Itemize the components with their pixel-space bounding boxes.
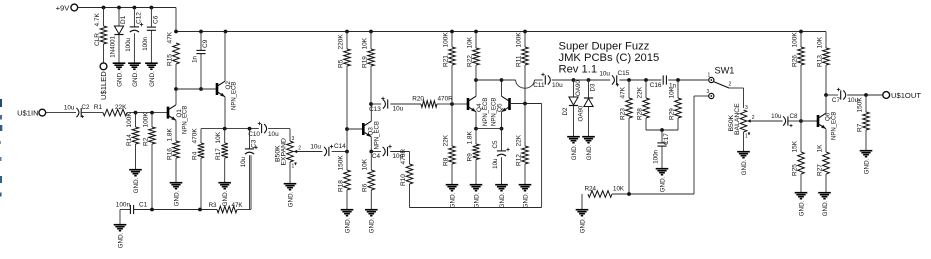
svg-text:NPN_ECB: NPN_ECB bbox=[832, 112, 838, 140]
svg-text:R21: R21 bbox=[442, 55, 449, 67]
svg-text:47K: 47K bbox=[232, 202, 244, 209]
svg-text:C16: C16 bbox=[650, 82, 662, 89]
svg-text:22K: 22K bbox=[115, 104, 127, 111]
svg-text:Q3: Q3 bbox=[368, 127, 375, 136]
svg-text:1: 1 bbox=[745, 134, 748, 140]
svg-text:GND.: GND. bbox=[344, 217, 351, 233]
svg-text:R15: R15 bbox=[166, 54, 173, 66]
svg-text:Q4: Q4 bbox=[476, 103, 483, 112]
svg-text:C3: C3 bbox=[251, 139, 258, 148]
svg-text:470K: 470K bbox=[191, 128, 198, 144]
svg-text:C15: C15 bbox=[618, 70, 630, 77]
svg-text:R14: R14 bbox=[126, 134, 133, 146]
svg-text:R3: R3 bbox=[209, 202, 217, 209]
svg-text:GND.: GND. bbox=[579, 217, 586, 233]
svg-text:GND.: GND. bbox=[369, 217, 376, 233]
svg-text:100n: 100n bbox=[142, 36, 149, 50]
svg-text:GND.: GND. bbox=[571, 144, 578, 160]
svg-text:NPN_ECB: NPN_ECB bbox=[375, 121, 381, 149]
svg-text:R9: R9 bbox=[466, 153, 473, 162]
svg-text:150K: 150K bbox=[337, 155, 344, 171]
svg-text:U$1OUT: U$1OUT bbox=[891, 91, 921, 100]
svg-text:3: 3 bbox=[745, 105, 748, 111]
svg-text:R12: R12 bbox=[515, 154, 522, 166]
svg-text:150K: 150K bbox=[856, 97, 863, 113]
svg-text:3: 3 bbox=[292, 136, 295, 142]
svg-text:100u: 100u bbox=[125, 37, 132, 51]
svg-text:R25: R25 bbox=[791, 164, 798, 176]
svg-text:GND.: GND. bbox=[741, 159, 748, 175]
svg-text:220K: 220K bbox=[337, 34, 344, 50]
svg-text:C17: C17 bbox=[663, 133, 670, 145]
svg-text:10K: 10K bbox=[215, 131, 222, 143]
svg-text:C13: C13 bbox=[369, 106, 381, 113]
svg-text:JMK PCBs (C) 2015: JMK PCBs (C) 2015 bbox=[559, 52, 660, 64]
svg-text:R22: R22 bbox=[466, 55, 473, 67]
svg-text:R17: R17 bbox=[215, 148, 222, 160]
svg-text:R20: R20 bbox=[412, 96, 424, 103]
svg-text:D3: D3 bbox=[590, 83, 597, 91]
svg-text:10u: 10u bbox=[771, 113, 782, 120]
svg-text:BALANCE: BALANCE bbox=[734, 103, 741, 135]
svg-text:R28: R28 bbox=[636, 108, 643, 120]
svg-text:R27: R27 bbox=[816, 164, 823, 176]
svg-text:C1: C1 bbox=[139, 202, 148, 209]
svg-text:EXPAND: EXPAND bbox=[281, 138, 288, 166]
svg-text:R18: R18 bbox=[337, 180, 344, 192]
svg-text:R1: R1 bbox=[94, 104, 103, 111]
svg-text:GND.: GND. bbox=[116, 71, 123, 87]
svg-text:C8: C8 bbox=[790, 113, 798, 120]
svg-text:1N4001: 1N4001 bbox=[109, 35, 116, 57]
svg-text:470R: 470R bbox=[400, 149, 407, 165]
svg-text:GND.: GND. bbox=[287, 191, 294, 207]
svg-text:SW1: SW1 bbox=[715, 66, 735, 76]
svg-text:100K: 100K bbox=[791, 32, 798, 48]
svg-text:R4: R4 bbox=[191, 151, 198, 160]
svg-text:NPN_ECB: NPN_ECB bbox=[183, 106, 189, 134]
svg-text:CLR: CLR bbox=[94, 33, 101, 46]
svg-text:R6: R6 bbox=[362, 183, 369, 192]
svg-text:GND.: GND. bbox=[499, 192, 506, 208]
svg-text:4.7K: 4.7K bbox=[94, 12, 101, 26]
svg-text:R24: R24 bbox=[585, 186, 597, 193]
svg-text:R26: R26 bbox=[791, 55, 798, 67]
svg-text:10u: 10u bbox=[552, 82, 563, 89]
svg-text:GND.: GND. bbox=[149, 71, 156, 87]
svg-text:100K: 100K bbox=[142, 112, 149, 128]
svg-text:GND.: GND. bbox=[659, 176, 666, 192]
svg-text:1n: 1n bbox=[191, 55, 198, 62]
svg-text:10u: 10u bbox=[492, 158, 499, 169]
svg-text:D1: D1 bbox=[120, 15, 127, 24]
svg-text:2: 2 bbox=[298, 146, 301, 152]
svg-text:OA90: OA90 bbox=[575, 80, 582, 96]
svg-text:C2: C2 bbox=[82, 104, 90, 111]
svg-text:C6: C6 bbox=[153, 15, 160, 24]
svg-text:GND.: GND. bbox=[449, 192, 456, 208]
svg-text:100K: 100K bbox=[515, 32, 522, 48]
svg-text:R5: R5 bbox=[337, 59, 344, 68]
svg-text:GND.: GND. bbox=[473, 192, 480, 208]
svg-text:22K: 22K bbox=[442, 134, 449, 146]
svg-text:1: 1 bbox=[708, 73, 711, 79]
svg-text:GND.: GND. bbox=[863, 158, 870, 174]
svg-text:10K: 10K bbox=[361, 37, 368, 49]
svg-text:R2: R2 bbox=[142, 137, 149, 146]
svg-text:GND.: GND. bbox=[133, 177, 140, 193]
svg-text:GND.: GND. bbox=[117, 232, 124, 248]
svg-text:R29: R29 bbox=[668, 108, 675, 120]
svg-text:R11: R11 bbox=[515, 55, 522, 67]
svg-text:15K: 15K bbox=[791, 140, 798, 152]
svg-text:1: 1 bbox=[292, 164, 295, 170]
svg-text:10u: 10u bbox=[393, 105, 404, 112]
svg-text:10K: 10K bbox=[668, 86, 675, 98]
svg-text:R19: R19 bbox=[361, 56, 368, 68]
svg-text:1.8K: 1.8K bbox=[466, 130, 473, 144]
svg-text:NPN_ECB: NPN_ECB bbox=[232, 82, 238, 110]
svg-text:GND.: GND. bbox=[522, 192, 529, 208]
svg-text:GND.: GND. bbox=[173, 190, 180, 206]
svg-text:470R: 470R bbox=[438, 96, 454, 103]
svg-text:C9: C9 bbox=[202, 39, 209, 48]
svg-text:10u: 10u bbox=[64, 105, 75, 112]
svg-text:Rev 1.1: Rev 1.1 bbox=[559, 64, 598, 76]
svg-text:C4: C4 bbox=[372, 153, 381, 160]
svg-text:C11: C11 bbox=[533, 82, 545, 89]
svg-text:100K: 100K bbox=[442, 32, 449, 48]
svg-text:22K: 22K bbox=[636, 86, 643, 98]
svg-text:10u: 10u bbox=[268, 131, 279, 138]
svg-text:Super Duper Fuzz: Super Duper Fuzz bbox=[559, 41, 650, 53]
svg-text:R13: R13 bbox=[816, 55, 823, 67]
svg-text:GND.: GND. bbox=[798, 200, 805, 216]
svg-text:Q5: Q5 bbox=[497, 103, 504, 112]
svg-text:R7: R7 bbox=[856, 123, 863, 132]
svg-text:+9V: +9V bbox=[56, 3, 71, 12]
svg-text:U$1IN: U$1IN bbox=[17, 108, 39, 117]
svg-text:R8: R8 bbox=[442, 157, 449, 166]
svg-text:C10: C10 bbox=[248, 131, 260, 138]
svg-text:100n: 100n bbox=[652, 149, 659, 163]
svg-text:NPN_ECB: NPN_ECB bbox=[483, 98, 489, 126]
svg-text:D2: D2 bbox=[562, 107, 569, 115]
svg-text:10u: 10u bbox=[310, 144, 321, 151]
svg-text:2: 2 bbox=[752, 115, 755, 121]
svg-text:1K: 1K bbox=[816, 144, 823, 153]
svg-text:10K: 10K bbox=[613, 186, 625, 193]
svg-text:C14: C14 bbox=[334, 143, 346, 150]
svg-text:10u: 10u bbox=[599, 70, 610, 77]
svg-text:47K: 47K bbox=[619, 86, 626, 98]
svg-text:R16: R16 bbox=[166, 148, 173, 160]
svg-text:10K: 10K bbox=[362, 158, 369, 170]
svg-text:GND.: GND. bbox=[222, 190, 229, 206]
svg-text:10u: 10u bbox=[240, 156, 247, 167]
svg-text:U$1LED: U$1LED bbox=[99, 71, 108, 100]
svg-text:47K: 47K bbox=[166, 31, 173, 43]
svg-text:GND.: GND. bbox=[586, 144, 593, 160]
svg-text:OA90: OA90 bbox=[578, 105, 585, 121]
svg-text:C7: C7 bbox=[832, 97, 841, 104]
svg-text:R23: R23 bbox=[619, 108, 626, 120]
svg-text:3: 3 bbox=[707, 89, 710, 95]
svg-text:10K: 10K bbox=[816, 36, 823, 48]
svg-text:22K: 22K bbox=[515, 134, 522, 146]
svg-text:100n: 100n bbox=[116, 202, 131, 209]
svg-text:100K: 100K bbox=[126, 112, 133, 128]
svg-text:10K: 10K bbox=[466, 36, 473, 48]
svg-text:C12: C12 bbox=[136, 12, 143, 24]
svg-text:GND.: GND. bbox=[132, 71, 139, 87]
svg-text:2: 2 bbox=[729, 82, 732, 88]
svg-text:GND.: GND. bbox=[822, 200, 829, 216]
svg-text:C5: C5 bbox=[492, 140, 499, 148]
svg-text:R10: R10 bbox=[400, 174, 407, 186]
svg-text:1.8K: 1.8K bbox=[166, 127, 173, 141]
